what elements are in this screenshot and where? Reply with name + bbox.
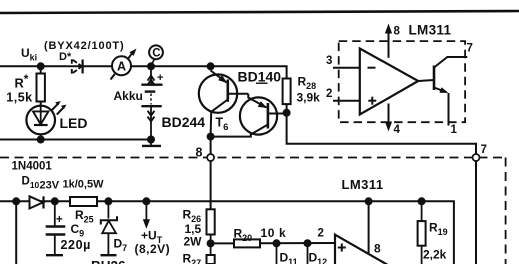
wire: BD140 base to pin 7 node	[287, 113, 476, 264]
pin 2	[326, 88, 360, 101]
wire: top supply rail into R28	[0, 66, 287, 78]
svg-text:8: 8	[394, 26, 401, 38]
wire: bottom supply rail	[0, 201, 454, 264]
svg-text:2W: 2W	[184, 235, 203, 249]
transistor BD140	[211, 69, 287, 137]
svg-text:3: 3	[326, 55, 332, 67]
svg-text:1k/0,5W: 1k/0,5W	[63, 179, 105, 191]
LED	[26, 101, 87, 143]
svg-text:1N4001: 1N4001	[12, 161, 53, 173]
resistor R25 1k/0,5W	[63, 179, 105, 225]
svg-text:2: 2	[318, 228, 324, 240]
pin 8 arrow and label 8 LM311	[385, 22, 452, 58]
battery Akku	[114, 62, 164, 146]
ammeter A	[111, 49, 137, 80]
zener diode D7	[101, 197, 128, 255]
svg-text:LED: LED	[60, 115, 88, 131]
transistor T6 (BD244)	[162, 62, 249, 140]
pin 8 line (second LM311)	[365, 197, 381, 255]
svg-text:A: A	[117, 60, 126, 74]
wire: left drop	[12, 197, 20, 264]
LM311 output transistor	[418, 43, 473, 137]
wire: battery negative rail	[0, 139, 152, 141]
svg-text:LM311: LM311	[409, 22, 452, 37]
svg-text:8: 8	[374, 242, 381, 256]
svg-text:LM311: LM311	[342, 177, 384, 192]
op-amp U1 triangle	[360, 49, 418, 115]
diode D* (dashed, optional)	[59, 51, 83, 74]
capacitor C9 220u	[46, 201, 91, 255]
svg-text:+: +	[56, 214, 63, 226]
dashed module boundary line	[0, 158, 506, 264]
svg-text:Akku: Akku	[114, 89, 143, 103]
node 8 (open circle)	[196, 146, 215, 162]
svg-text:7: 7	[467, 43, 473, 55]
svg-text:220µ: 220µ	[61, 238, 91, 252]
wire: collectors to node 8 drop	[210, 137, 212, 210]
svg-text:1: 1	[451, 124, 458, 136]
svg-text:3,9k: 3,9k	[297, 91, 321, 105]
svg-text:2,2k: 2,2k	[423, 248, 447, 262]
node 7 (open circle)	[473, 144, 487, 161]
op-amp A2 triangle (partial)	[335, 235, 391, 264]
LM311 dashed box	[339, 41, 465, 122]
svg-text:BU26: BU26	[91, 259, 126, 264]
svg-text:BD244: BD244	[162, 114, 206, 130]
svg-text:8: 8	[196, 146, 203, 160]
svg-text:1,5k: 1,5k	[6, 90, 32, 104]
resistor R20 10k	[211, 226, 335, 247]
diode D12	[304, 239, 328, 264]
svg-text:(8,2V): (8,2V)	[135, 242, 171, 256]
resistor R27	[183, 243, 215, 264]
svg-text:D*: D*	[59, 51, 72, 63]
diode D11	[273, 239, 298, 264]
resistor R19 2,2k	[418, 197, 448, 264]
resistor R28 3,9k	[283, 75, 321, 117]
svg-text:+: +	[157, 72, 163, 84]
resistor R* 1,5k	[6, 62, 45, 106]
resistor R26 1,5 2W	[183, 208, 215, 249]
top border frame line	[0, 11, 519, 13]
pin 3	[326, 55, 360, 68]
+UT (8,2V) output arrow	[135, 197, 171, 256]
svg-text:BD140: BD140	[238, 69, 282, 85]
svg-text:23V: 23V	[40, 180, 60, 192]
svg-text:2: 2	[326, 88, 332, 100]
pin 4 arrow	[385, 104, 401, 137]
diode D10 1N4001	[12, 161, 60, 209]
node C (circled C with stub)	[149, 45, 163, 64]
svg-text:4: 4	[394, 124, 401, 136]
svg-text:10 k: 10 k	[261, 226, 287, 240]
svg-text:7: 7	[481, 144, 487, 156]
svg-text:C: C	[152, 48, 160, 60]
svg-text:(BYX42/100T): (BYX42/100T)	[44, 40, 125, 52]
